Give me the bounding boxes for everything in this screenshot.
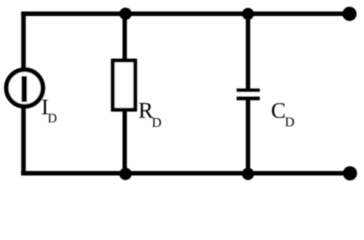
junction dot bottom capacitor node <box>242 168 254 180</box>
wire capacitor branch upper <box>246 12 250 90</box>
resistor R_D <box>113 61 135 110</box>
wire bottom rail <box>21 171 350 176</box>
junction dot top capacitor node <box>242 8 254 20</box>
label R_D <box>139 103 161 127</box>
junction dot bottom resistor node <box>119 168 131 180</box>
terminal dot top right <box>342 7 356 21</box>
label I_D <box>42 100 56 123</box>
junction dot top resistor node <box>119 8 131 20</box>
wire left branch lower <box>21 105 26 176</box>
wire resistor branch upper <box>122 12 126 64</box>
terminal dot bottom right <box>343 166 357 180</box>
wire capacitor branch lower <box>246 99 250 175</box>
wire top rail <box>21 12 350 17</box>
wire resistor branch lower <box>122 108 126 175</box>
capacitor C_D <box>237 90 260 98</box>
label C_D <box>272 103 294 126</box>
wire left branch upper <box>21 12 26 73</box>
current source I_D <box>6 70 43 107</box>
